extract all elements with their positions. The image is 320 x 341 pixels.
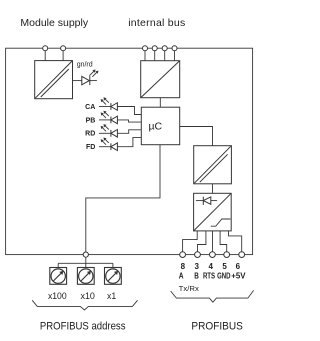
wire: stub terminal X1.1: [44, 51, 46, 61]
LED CA: [99, 97, 117, 110]
wire: U5 to terminal 4: [212, 231, 214, 252]
terminal X1.1 (module supply): [43, 46, 48, 51]
wire: LED PB to µC: [117, 120, 141, 122]
svg-text:x10: x10: [81, 291, 95, 301]
wire: stub terminal X2.2: [154, 51, 156, 61]
wire: U4 to transceiver U5: [212, 184, 214, 194]
terminal 4 (RTS): [210, 252, 216, 258]
rotary switch S2 (x10): [77, 268, 94, 285]
svg-text:RTS: RTS: [203, 272, 216, 281]
bus interface U2 (internal bus coupler): [141, 61, 180, 98]
svg-text:gn/rd: gn/rd: [77, 62, 93, 69]
svg-text:FD: FD: [86, 144, 95, 151]
svg-text:RD: RD: [85, 131, 95, 138]
wire: stub switch S1: [57, 263, 59, 267]
svg-text:3: 3: [194, 262, 199, 271]
terminal 3 (B): [195, 252, 201, 258]
wire: stub terminal X2.1: [144, 51, 146, 61]
svg-text:5: 5: [222, 262, 227, 271]
svg-text:A: A: [179, 272, 184, 281]
LED RD: [99, 124, 117, 137]
terminal X2.2 (internal bus): [152, 46, 157, 51]
wire: LED CA to µC: [117, 107, 141, 115]
wire: U2 to microcontroller: [159, 98, 161, 108]
rotary switch S1 (x100): [50, 268, 67, 285]
microcontroller U3 (µC): [141, 107, 179, 145]
terminal 5 (GND): [224, 252, 230, 258]
svg-text:x1: x1: [107, 291, 116, 301]
transceiver U5 (isolated RS-485 driver): [194, 193, 232, 231]
LED PB: [99, 111, 117, 124]
rotary switch S3 (x1): [105, 268, 122, 285]
wire: junction to switch bus: [85, 257, 87, 263]
svg-text:x100: x100: [48, 291, 67, 301]
svg-text:6: 6: [236, 262, 241, 271]
svg-text:+5V: +5V: [231, 272, 246, 281]
wire: LED RD to µC: [117, 130, 141, 134]
svg-text:4: 4: [208, 262, 213, 271]
svg-text:B: B: [194, 272, 199, 281]
wire: U5 to terminal 6: [229, 231, 242, 252]
LED FD: [99, 138, 117, 151]
terminal X2.4 (internal bus): [172, 46, 177, 51]
svg-text:PROFIBUS: PROFIBUS: [191, 320, 243, 332]
terminal 8 (A): [180, 252, 186, 258]
wire: stub switch S2: [85, 263, 87, 267]
svg-text:Module supply: Module supply: [20, 17, 88, 29]
svg-text:PB: PB: [86, 117, 96, 124]
terminal X2.3 (internal bus): [162, 46, 167, 51]
svg-text:GND: GND: [217, 272, 231, 281]
wire: switch bus: [58, 262, 113, 264]
terminal X2.1 (internal bus): [143, 46, 148, 51]
wire: U5 to terminal 5: [220, 231, 227, 252]
svg-text:Tx/Rx: Tx/Rx: [179, 284, 199, 293]
svg-text:PROFIBUS address: PROFIBUS address: [40, 320, 126, 332]
wire: stub switch S3: [112, 263, 114, 267]
svg-text:internal bus: internal bus: [128, 17, 185, 29]
terminal X1.2 (module supply): [61, 46, 66, 51]
power supply U1 (module supply DC/DC converter): [35, 61, 73, 99]
brace: PROFIBUS address group: [32, 300, 137, 310]
LED gn/rd: [82, 70, 99, 86]
wire: µC to address switches: [86, 145, 160, 255]
svg-text:8: 8: [181, 262, 186, 271]
wire: LED FD to µC: [117, 137, 141, 146]
wire: outer bus loop: [6, 48, 253, 254]
node: junction on bottom bus: [83, 252, 88, 257]
wire: µC to DC/DC converter U4: [180, 127, 213, 146]
svg-text:µC: µC: [148, 121, 162, 133]
svg-text:CA: CA: [85, 104, 95, 111]
terminal 6 (+5V): [239, 252, 245, 258]
wire: stub terminal X1.2: [62, 51, 64, 61]
wire: U5 to terminal 3: [198, 231, 206, 252]
wire: stub terminal X2.4: [174, 51, 176, 61]
brace: PROFIBUS group: [171, 290, 254, 302]
wire: U5 to terminal 8: [183, 231, 198, 252]
wire: U1 to LED gn/rd: [73, 80, 82, 82]
wire: stub terminal X2.3: [164, 51, 166, 61]
power supply U4 (isolated DC/DC converter): [194, 146, 232, 184]
